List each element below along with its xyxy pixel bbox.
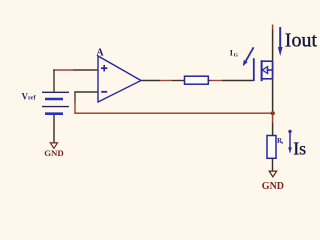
svg-text:GND: GND: [44, 148, 64, 158]
svg-text:GND: GND: [262, 181, 284, 192]
svg-text:I: I: [230, 48, 233, 57]
svg-text:Is: Is: [293, 138, 306, 158]
svg-text:A: A: [96, 48, 104, 59]
svg-text:s: s: [281, 141, 283, 146]
svg-text:G: G: [234, 52, 239, 58]
svg-text:Iout: Iout: [285, 30, 318, 52]
svg-text:ref: ref: [28, 95, 36, 102]
